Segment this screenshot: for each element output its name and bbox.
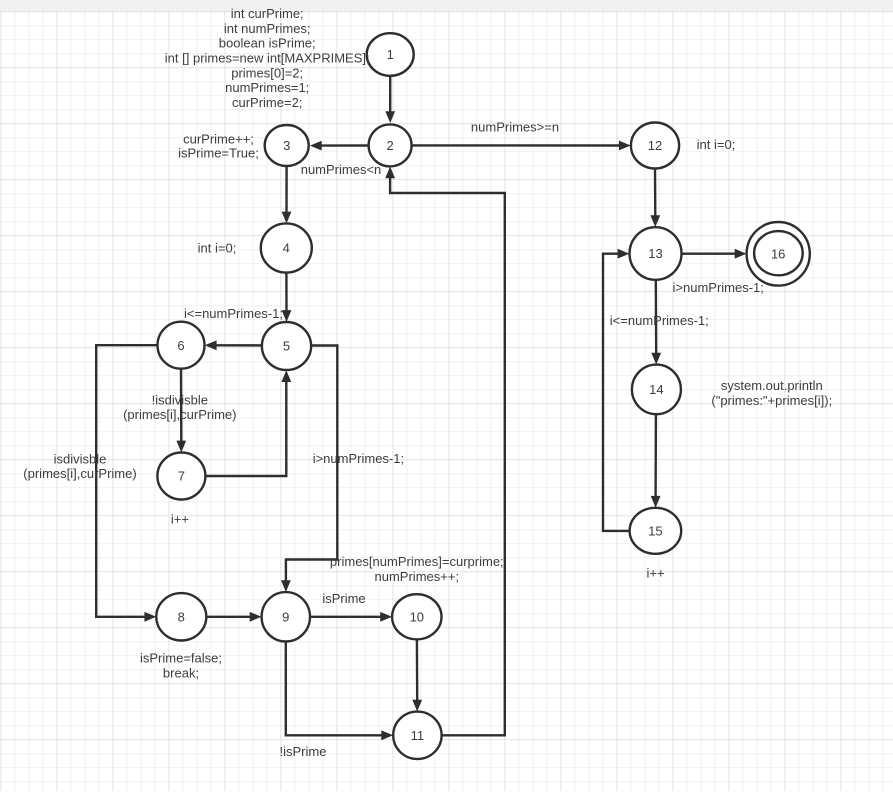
svg-text:boolean isPrime;: boolean isPrime; [219,36,316,51]
svg-text:curPrime=2;: curPrime=2; [232,95,302,110]
svg-text:system.out.println: system.out.println [721,378,823,393]
label isdivisble [23,451,136,481]
state node 14 [632,365,681,415]
svg-text:primes[0]=2;: primes[0]=2; [231,65,303,80]
svg-text:13: 13 [648,246,662,261]
wire 3->4 [282,166,292,223]
state node 3 [265,125,309,166]
state node 7 [157,453,205,500]
wire 1->2 [385,76,395,123]
svg-text:break;: break; [163,666,199,681]
label i++ node7 [171,511,189,526]
svg-text:!isdivisble: !isdivisble [152,393,208,408]
state node 9 [262,592,310,641]
wire 9->10 [310,612,392,622]
svg-text:i>numPrimes-1;: i>numPrimes-1; [673,280,764,295]
svg-text:6: 6 [177,338,184,353]
svg-text:numPrimes>=n: numPrimes>=n [471,120,559,135]
wire 15->13 [603,249,630,531]
svg-text:i++: i++ [171,511,189,526]
wire 5->9 [281,346,337,593]
wire 7->5 [205,370,291,476]
svg-text:4: 4 [283,241,290,256]
svg-text:10: 10 [410,609,424,624]
label !isdivisble [123,393,236,423]
label curPrime++ isPrime=True [178,132,259,161]
state node 15 [630,508,682,554]
svg-text:14: 14 [649,382,663,397]
svg-text:3: 3 [283,138,290,153]
svg-text:i<=numPrimes-1;: i<=numPrimes-1; [610,313,709,328]
wire 13->16 [682,249,747,259]
wire 8->9 [206,612,261,622]
state node 5 [262,322,311,370]
svg-text:int [] primes=new int[MAXPRIME: int [] primes=new int[MAXPRIMES]; [165,51,370,66]
svg-text:numPrimes++;: numPrimes++; [375,569,460,584]
state node 10 [392,594,441,639]
wire 5->6 [205,340,262,350]
state node 8 [156,593,206,640]
svg-text:5: 5 [283,339,290,354]
state node 1 [367,33,414,76]
label int i=0 left [198,241,237,256]
label primes[numPrimes]=curprime [330,554,504,584]
svg-text:isPrime=false;: isPrime=false; [140,651,222,666]
svg-text:i++: i++ [647,565,665,580]
wire 14->15 [651,414,661,508]
state node 4 [261,223,312,272]
svg-text:int i=0;: int i=0; [198,241,237,256]
svg-text:1: 1 [387,47,394,62]
svg-text:(primes[i],curPrime): (primes[i],curPrime) [123,407,236,422]
wire 6->8 [96,345,157,622]
svg-text:11: 11 [411,728,425,743]
label isPrime=false break [140,651,222,681]
svg-text:!isPrime: !isPrime [280,744,327,759]
top gray off-page band [0,0,893,11]
state node 6 [158,322,205,369]
svg-text:primes[numPrimes]=curprime;: primes[numPrimes]=curprime; [330,554,504,569]
svg-text:12: 12 [648,138,662,153]
svg-text:curPrime++;: curPrime++; [183,132,254,147]
wire 4->5 [282,273,292,322]
label !isPrime [280,744,327,759]
label i<=numPrimes-1 left [184,306,283,321]
state node 12 [631,123,679,169]
svg-text:int numPrimes;: int numPrimes; [224,21,311,36]
svg-text:i>numPrimes-1;: i>numPrimes-1; [313,451,404,466]
label i>numPrimes-1 mid [313,451,404,466]
label numPrimes<n [301,162,382,177]
svg-text:i<=numPrimes-1;: i<=numPrimes-1; [184,306,283,321]
state node 2 [369,124,412,166]
wire 2->12 [412,141,631,151]
label isPrime [322,591,365,606]
svg-text:2: 2 [386,138,393,153]
wire 11->2 [385,167,505,736]
svg-text:("primes:"+primes[i]);: ("primes:"+primes[i]); [711,393,832,408]
label i<=numPrimes-1 right [610,313,709,328]
state node 13 [630,227,682,280]
svg-text:isPrime=True;: isPrime=True; [178,145,259,160]
wire 13->14 [651,280,661,365]
wire 12->13 [650,169,660,228]
svg-text:int curPrime;: int curPrime; [231,6,304,21]
label system.out.println [711,378,832,408]
label i>numPrimes-1 right [673,280,764,295]
svg-text:isdivisble: isdivisble [54,451,107,466]
svg-text:numPrimes=1;: numPrimes=1; [225,80,309,95]
state node 16 [747,222,810,286]
svg-text:9: 9 [282,609,289,624]
svg-text:int i=0;: int i=0; [697,137,736,152]
label i++ node15 [647,565,665,580]
svg-text:7: 7 [178,469,185,484]
wire 9->11 [286,642,393,741]
svg-text:isPrime: isPrime [322,591,365,606]
wire 2->3 [310,141,369,151]
label int i=0 right [697,137,736,152]
label init code block [165,6,370,110]
svg-text:8: 8 [178,609,185,624]
svg-text:16: 16 [771,246,785,261]
label numPrimes>=n [471,120,559,135]
svg-text:(primes[i],curPrime): (primes[i],curPrime) [23,466,136,481]
wire 10->11 [412,639,422,711]
state node 11 [393,712,441,759]
wire 6->7 [176,369,186,453]
svg-text:15: 15 [648,523,662,538]
svg-text:numPrimes<n: numPrimes<n [301,162,382,177]
